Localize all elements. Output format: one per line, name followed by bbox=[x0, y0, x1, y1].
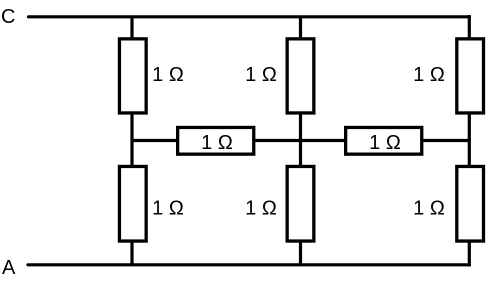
wire bottom riser column 3 bbox=[468, 241, 471, 266]
svg-text:1 Ω: 1 Ω bbox=[201, 132, 233, 154]
R6 value label 1 Ω bbox=[413, 198, 445, 220]
wire middle riser column 2 bbox=[299, 113, 302, 166]
wire middle segment col1 to R7 bbox=[132, 139, 177, 142]
R4 value label 1 Ω bbox=[152, 198, 184, 220]
resistor R6 bottom-right bbox=[457, 166, 484, 241]
resistor R8 horizontal right bbox=[346, 127, 422, 154]
wire top stub column 1 bbox=[130, 17, 133, 38]
svg-text:C: C bbox=[1, 6, 15, 28]
R2 value label 1 Ω bbox=[245, 64, 277, 86]
resistor R2 top-middle bbox=[287, 39, 314, 113]
resistor R7 horizontal left bbox=[178, 127, 254, 154]
wire middle segment col2 to R8 bbox=[301, 139, 346, 142]
wire middle riser column 3 bbox=[468, 113, 471, 166]
resistor R5 bottom-middle bbox=[287, 166, 314, 241]
svg-text:1 Ω: 1 Ω bbox=[413, 198, 445, 220]
svg-text:1 Ω: 1 Ω bbox=[413, 64, 445, 86]
wire bottom stub column 1 bbox=[130, 241, 133, 265]
resistor R4 bottom-left bbox=[119, 166, 146, 241]
R8 value label 1 Ω bbox=[369, 132, 401, 154]
resistor R1 top-left bbox=[119, 39, 146, 113]
wire bottom stub column 2 bbox=[299, 241, 302, 265]
wire top stub column 2 bbox=[299, 17, 302, 38]
wire bottom bus (node A) bbox=[28, 263, 469, 266]
svg-text:1 Ω: 1 Ω bbox=[245, 198, 277, 220]
wire middle segment R8 to col3 bbox=[423, 139, 470, 142]
resistor R3 top-right bbox=[457, 39, 484, 113]
wire middle riser column 1 bbox=[130, 113, 133, 166]
wire top drop column 3 bbox=[468, 15, 471, 38]
node A label bbox=[2, 257, 16, 279]
R5 value label 1 Ω bbox=[245, 198, 277, 220]
svg-text:A: A bbox=[2, 257, 16, 279]
svg-text:1 Ω: 1 Ω bbox=[152, 198, 184, 220]
svg-text:1 Ω: 1 Ω bbox=[369, 132, 401, 154]
svg-text:1 Ω: 1 Ω bbox=[152, 64, 184, 86]
wire middle segment R7 to col2 bbox=[255, 139, 301, 142]
R1 value label 1 Ω bbox=[152, 64, 184, 86]
R7 value label 1 Ω bbox=[201, 132, 233, 154]
node C label bbox=[1, 6, 15, 28]
svg-text:1 Ω: 1 Ω bbox=[245, 64, 277, 86]
wire top bus (node C) bbox=[29, 15, 470, 18]
R3 value label 1 Ω bbox=[413, 64, 445, 86]
